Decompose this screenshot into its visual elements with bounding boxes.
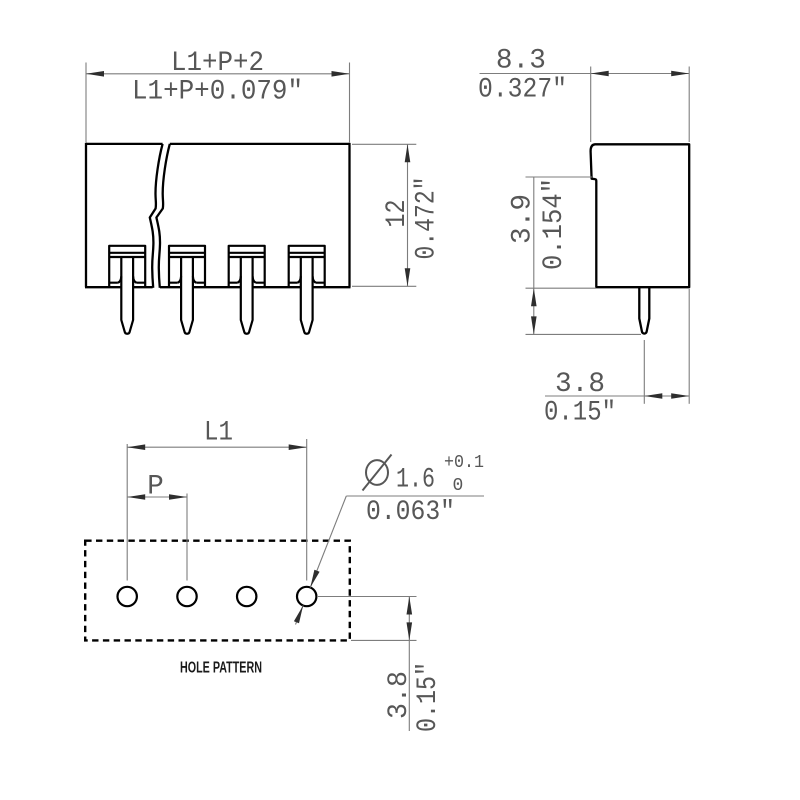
- funnel fillet left: [297, 276, 300, 282]
- dimension line: [408, 597, 410, 732]
- funnel fillet right: [193, 276, 196, 282]
- hole pattern dashed outline: [85, 541, 350, 641]
- svg-text:3.9: 3.9: [508, 194, 539, 244]
- break line left: [150, 144, 163, 288]
- dimension P (pitch): [127, 494, 187, 581]
- funnel fillet left: [118, 276, 121, 282]
- svg-text:L1: L1: [204, 418, 233, 449]
- extension line hole4: [306, 439, 308, 581]
- svg-text:0.154": 0.154": [539, 178, 570, 270]
- extension line hole1: [126, 444, 128, 581]
- extension line right face: [688, 289, 690, 404]
- dimension 3.9 / 0.154" (pin length side): [526, 177, 642, 334]
- arrow right (front width): [332, 71, 350, 77]
- leader diagonal lower tail: [296, 606, 304, 625]
- arrow right (P): [169, 494, 187, 500]
- collar line upper: [109, 252, 145, 254]
- extension line right: [349, 63, 351, 143]
- arrow left (side offset): [644, 393, 662, 399]
- dimension 3.8 / 0.15" (side pin offset): [545, 289, 689, 404]
- arrow up (side pin): [531, 288, 537, 306]
- arrow down (front height): [405, 268, 411, 286]
- extension line right: [688, 67, 690, 143]
- arrow up (front height): [405, 144, 411, 162]
- svg-text:1.6: 1.6: [396, 465, 435, 496]
- side pin: [639, 287, 649, 333]
- hole diameter leader: [296, 496, 485, 625]
- svg-text:0.063": 0.063": [366, 497, 455, 528]
- dimension L1 (hole span): [127, 439, 307, 581]
- extension line step corner: [526, 176, 593, 178]
- funnel fillet right: [253, 276, 256, 282]
- funnel fillet left: [237, 276, 240, 282]
- hole 3: [237, 587, 256, 606]
- diameter symbol circle: [366, 460, 388, 485]
- collar line lower: [169, 256, 205, 258]
- arrow left (L1): [127, 444, 145, 450]
- collar line upper: [169, 252, 205, 254]
- svg-text:0.472": 0.472": [412, 177, 443, 260]
- pin shaft: [241, 257, 253, 334]
- extension line bottom: [352, 285, 416, 287]
- extension line top: [352, 143, 416, 145]
- collar line lower: [109, 256, 145, 258]
- svg-text:8.3: 8.3: [496, 46, 546, 77]
- body top edge left of break: [86, 143, 163, 145]
- body left edge: [85, 143, 87, 287]
- extension line hole4 center: [318, 596, 417, 598]
- dimension line: [407, 144, 409, 286]
- hole 2: [177, 587, 196, 606]
- svg-text:HOLE PATTERN: HOLE PATTERN: [180, 660, 262, 677]
- dimension 8.3 / 0.327" (side width): [480, 67, 690, 143]
- collar line upper: [289, 252, 325, 254]
- collar outline: [109, 246, 145, 287]
- extension line left: [85, 63, 87, 143]
- side body outline: [591, 144, 690, 333]
- funnel fillet right: [133, 276, 136, 282]
- svg-text:12: 12: [382, 200, 413, 228]
- svg-text:0.15": 0.15": [544, 398, 616, 429]
- svg-text:P: P: [147, 472, 164, 503]
- pin shaft: [181, 257, 193, 334]
- leader diagonal upper: [310, 496, 346, 588]
- dimension line: [127, 496, 187, 498]
- extension line pin center: [643, 340, 645, 404]
- diameter symbol slash: [363, 455, 392, 491]
- dimension line: [127, 446, 307, 448]
- collar line lower: [289, 256, 325, 258]
- extension line hole2: [186, 494, 188, 581]
- body right edge: [348, 143, 350, 287]
- extension line body bottom: [526, 287, 597, 289]
- funnel fillet right: [313, 276, 316, 282]
- body bottom edge segments (interrupted by pin shafts and break): [85, 286, 351, 288]
- collar outline: [169, 246, 205, 287]
- collar line lower: [229, 256, 265, 258]
- svg-text:+0.1: +0.1: [444, 453, 484, 473]
- extension line rect bottom: [351, 639, 417, 641]
- hole 4: [297, 587, 316, 606]
- arrow right (side width): [671, 71, 689, 77]
- extension line left: [590, 67, 592, 143]
- pin 4 (front): [289, 246, 325, 334]
- arrow left (P): [127, 494, 145, 500]
- leader horizontal: [346, 495, 484, 497]
- extension line pin tip: [526, 333, 642, 335]
- arrow down (hole offset): [407, 622, 413, 640]
- arrow down (side pin): [531, 316, 537, 334]
- collar bottom seat line: [169, 282, 205, 284]
- dimension line: [545, 395, 689, 397]
- dimension L1+P+2 (front width): [86, 63, 350, 143]
- arrow right (side offset): [671, 393, 689, 399]
- arrow into hole upper: [310, 570, 319, 588]
- svg-text:0: 0: [453, 476, 464, 496]
- dimension 12 / 0.472" (front height): [352, 144, 416, 286]
- dimension line: [86, 73, 350, 75]
- collar bottom seat line: [289, 282, 325, 284]
- collar bottom seat line: [229, 282, 265, 284]
- pin 1 (front): [109, 246, 145, 334]
- arrow left (side width): [591, 71, 609, 77]
- pin 3 (front): [229, 246, 265, 334]
- svg-text:0.327": 0.327": [478, 75, 567, 106]
- arrow up (hole offset): [407, 597, 413, 615]
- svg-text:L1+P+2: L1+P+2: [171, 48, 264, 79]
- funnel fillet left: [178, 276, 181, 282]
- pin 2 (front): [169, 246, 205, 334]
- arrow into hole lower: [294, 606, 303, 624]
- body top edge right of break: [170, 143, 350, 145]
- pin shaft: [121, 257, 133, 334]
- pin shaft: [301, 257, 313, 334]
- arrow left (front width): [86, 71, 104, 77]
- hole 1: [118, 587, 137, 606]
- svg-text:3.8: 3.8: [384, 671, 415, 719]
- collar outline: [229, 246, 265, 287]
- dimension line: [480, 73, 690, 75]
- dimension line: [533, 177, 535, 334]
- collar line upper: [229, 252, 265, 254]
- collar outline: [289, 246, 325, 287]
- svg-text:L1+P+0.079": L1+P+0.079": [132, 77, 303, 108]
- svg-text:3.8: 3.8: [555, 369, 605, 400]
- break line right: [156, 144, 169, 288]
- dimension 3.8 / 0.15" (hole edge offset): [318, 597, 417, 732]
- svg-text:0.15": 0.15": [413, 662, 444, 732]
- collar bottom seat line: [109, 282, 145, 284]
- arrow right (L1): [289, 444, 307, 450]
